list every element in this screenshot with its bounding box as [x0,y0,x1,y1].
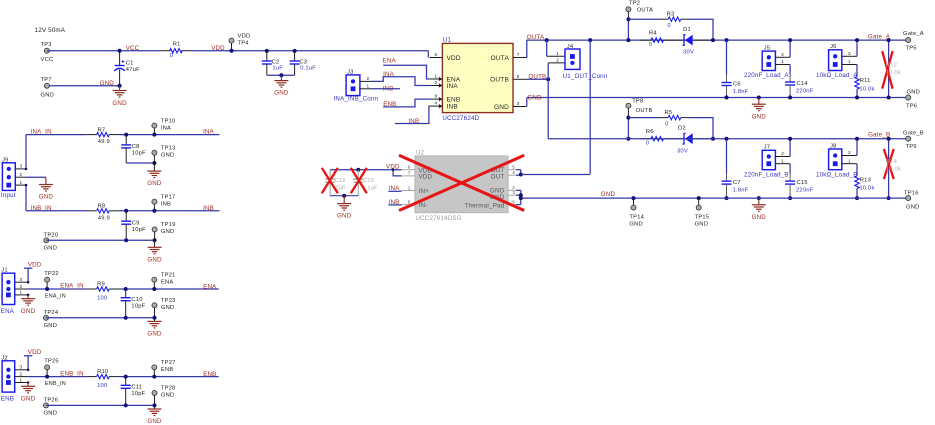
pin 8 ENB U1 [430,98,443,100]
pin 3 GND U2 [508,194,516,196]
svg-text:ENB: ENB [203,371,216,378]
svg-text:1.8nF: 1.8nF [733,89,749,95]
svg-text:2: 2 [781,151,784,156]
svg-text:UCC27624D: UCC27624D [442,115,479,122]
pin 9 Thermal_Pad U2 [508,204,516,206]
ground symbol GND rail A [757,96,761,100]
capacitor C10 [124,287,128,291]
svg-text:9: 9 [512,199,515,204]
svg-text:U1_OUT_Conn: U1_OUT_Conn [563,73,608,80]
svg-text:5: 5 [517,74,520,79]
svg-text:TP16: TP16 [904,190,919,196]
svg-text:C7: C7 [733,180,741,186]
svg-text:1uF: 1uF [272,66,283,72]
ground symbol J1 pin1 [27,294,30,297]
svg-text:2: 2 [781,52,784,57]
svg-text:3: 3 [517,101,520,106]
svg-text:TP26: TP26 [44,398,59,404]
svg-text:10.0k: 10.0k [859,86,874,92]
diode D1 zener 30V [683,35,686,46]
svg-text:3: 3 [512,190,515,195]
svg-text:U2: U2 [416,149,425,156]
svg-text:GND: GND [21,308,36,315]
node TP2 branch [626,17,630,21]
svg-text:ENA: ENA [1,308,15,315]
red X over U2 [399,155,524,210]
svg-text:10.0k: 10.0k [886,70,901,76]
testpoint TP5 [906,38,911,43]
svg-text:ENB: ENB [447,97,461,104]
svg-text:TP9: TP9 [906,144,917,150]
testpoint TP14 [632,196,636,200]
testpoint TP24 and bottom wire [44,315,49,320]
svg-text:GND: GND [161,393,174,399]
connector J1 [2,273,15,304]
svg-text:Input: Input [1,192,16,199]
svg-text:220nF_Load_A: 220nF_Load_A [744,72,789,79]
svg-text:10.0k: 10.0k [886,167,901,173]
svg-text:TP27: TP27 [161,360,176,366]
wire VCC rail [47,50,160,52]
pin 3 GND U1 [513,106,527,108]
svg-text:J5: J5 [764,45,771,51]
ground symbol GND rail B [757,196,761,200]
node GND junction [118,84,122,88]
svg-text:INB: INB [408,118,419,125]
svg-text:12V 50mA: 12V 50mA [35,27,66,34]
svg-text:GND: GND [527,95,542,102]
svg-text:R7: R7 [98,127,106,133]
svg-text:TP3: TP3 [41,42,52,48]
svg-text:TP19: TP19 [161,222,176,228]
svg-text:TP24: TP24 [44,310,59,316]
svg-text:GND: GND [44,323,57,329]
testpoint TP2 [627,12,629,19]
svg-text:TP28: TP28 [161,386,176,392]
svg-text:TP5: TP5 [906,45,917,51]
op-amp U2 UCC27614DSG DNP [415,156,508,213]
svg-text:220nF_Load_B: 220nF_Load_B [744,171,789,178]
svg-text:Gate_A: Gate_A [868,33,891,40]
svg-text:J9: J9 [2,157,9,163]
svg-text:0.1uF: 0.1uF [300,66,316,72]
svg-text:6: 6 [434,52,437,57]
wire C8 to TP13 gnd [126,162,154,164]
svg-text:GND: GND [39,194,54,201]
svg-text:100: 100 [97,383,107,389]
svg-text:GND: GND [752,113,767,120]
testpoint TP15 [697,196,701,200]
svg-text:C1: C1 [126,60,134,66]
svg-text:4: 4 [434,101,437,106]
node D1 R3 junction [711,38,715,42]
svg-text:7: 7 [408,171,411,176]
svg-text:J7: J7 [764,145,771,151]
testpoint TP8 [627,108,629,117]
svg-text:R5: R5 [665,110,673,116]
svg-text:100: 100 [97,295,107,301]
resistor R11 [856,65,858,77]
svg-text:0: 0 [646,141,649,147]
svg-text:UCC27614DSG: UCC27614DSG [416,215,462,222]
wire ENB_IN [28,376,87,378]
svg-text:10pF: 10pF [131,391,145,397]
testpoint TP3 [44,48,49,53]
svg-text:INA: INA [447,83,459,90]
svg-text:R14: R14 [886,159,898,165]
svg-text:5: 5 [512,165,515,170]
svg-text:TP22: TP22 [44,271,59,277]
svg-text:10.0k: 10.0k [859,186,874,192]
pin 2 INA U1 [430,85,443,87]
connector J9 Input [2,163,15,191]
svg-text:2: 2 [434,80,437,85]
net label GND rail B [521,197,906,199]
net label INB at U1 pin4 wire [395,106,430,123]
svg-text:1: 1 [20,377,23,382]
testpoint TP25 [45,365,50,370]
svg-text:VDD: VDD [238,33,251,39]
ground symbol below C2 C3 [280,75,282,80]
svg-text:TP2: TP2 [629,1,640,7]
svg-text:1: 1 [434,74,437,79]
svg-text:1: 1 [20,180,23,185]
svg-text:GND: GND [147,418,162,425]
svg-text:INA: INA [203,129,215,136]
capacitor C15 [789,164,791,174]
svg-text:VCC: VCC [126,45,140,52]
connector J7 220nF_Load_B [762,150,775,169]
capacitor C13 DNP [356,168,360,172]
svg-text:2: 2 [367,76,370,81]
svg-text:2: 2 [556,58,559,63]
svg-text:GND: GND [147,331,162,338]
wire U2 GND bracket [516,189,521,191]
svg-text:ENA_IN: ENA_IN [45,294,66,300]
svg-text:ENB_IN: ENB_IN [60,370,84,377]
svg-text:C15: C15 [797,180,808,186]
svg-text:0: 0 [170,53,173,59]
svg-text:8: 8 [434,94,437,99]
svg-text:0: 0 [665,121,668,127]
svg-text:C14: C14 [797,81,809,87]
pin 6 VDD U2 [402,169,415,171]
svg-text:R11: R11 [860,78,871,84]
svg-text:C9: C9 [132,221,140,227]
testpoint TP16 [906,196,911,201]
svg-text:10kΩ_Load_B: 10kΩ_Load_B [816,171,858,178]
svg-text:GND: GND [21,395,36,402]
svg-text:C3: C3 [299,59,307,65]
testpoint TP23 with ground [152,303,157,308]
testpoint TP7 [44,83,49,88]
capacitor C1 [119,51,121,66]
testpoint TP13 with ground [152,150,157,155]
svg-text:TP25: TP25 [44,359,59,365]
testpoint TP20 and bottom wire [44,238,49,243]
svg-text:R13: R13 [860,177,871,183]
svg-text:GND: GND [907,90,920,96]
svg-text:INA_INB_Conn: INA_INB_Conn [334,95,379,102]
svg-text:TP7: TP7 [41,77,52,83]
capacitor C11 [124,375,128,379]
svg-text:TP17: TP17 [161,194,176,200]
svg-text:GND: GND [44,411,57,417]
pin 8 IN- U2 [402,204,415,206]
connector J3 [346,75,360,96]
pin 1 ENA U1 [430,78,443,80]
svg-text:OUTB: OUTB [490,77,509,84]
resistor R8 [87,210,97,212]
svg-text:ENA: ENA [203,283,217,290]
resistor R7 [87,134,97,136]
svg-text:6: 6 [408,165,411,170]
wire J5 pin2 to rail [789,40,791,57]
resistor R12 DNP [888,40,890,97]
pin 1 IN+ U2 [402,190,415,192]
testpoint TP10 [153,128,155,135]
svg-text:49.9: 49.9 [98,139,110,145]
resistor R13 [856,164,858,176]
svg-text:R4: R4 [649,30,657,36]
svg-text:2: 2 [848,51,851,56]
svg-text:ENB: ENB [1,395,14,402]
wire C12 C13 commons [330,195,358,197]
svg-text:2: 2 [20,371,23,376]
wire ENA_IN [28,288,87,290]
pin 5 OUTB U1 [513,78,527,80]
testpoint TP19 with ground [152,227,157,232]
svg-text:TP8: TP8 [632,98,643,104]
svg-text:GND: GND [161,229,174,235]
pin 7 VDD U2 [402,175,415,177]
svg-text:Gate_A: Gate_A [903,31,924,37]
svg-text:2: 2 [20,284,23,289]
svg-text:TP20: TP20 [44,232,59,238]
svg-text:INB: INB [447,104,458,111]
svg-text:1: 1 [848,158,851,163]
svg-text:0: 0 [649,42,652,48]
svg-text:1: 1 [408,185,411,190]
testpoint TP22 [45,277,50,282]
connector J5 220nF_Load_A [762,51,775,70]
svg-text:VDD: VDD [419,174,433,181]
svg-text:C6: C6 [733,82,741,88]
svg-text:OUT: OUT [491,174,505,181]
node D2 R5 junction [711,137,715,141]
svg-text:D2: D2 [678,126,686,132]
capacitor C3 [293,49,297,53]
capacitor C14 [789,65,791,75]
testpoint TP26 and bottom wire [44,403,49,408]
capacitor C6 [725,38,729,42]
svg-text:J1: J1 [1,268,8,274]
svg-text:C13: C13 [363,178,374,184]
svg-text:GND: GND [161,305,174,311]
svg-text:GND: GND [695,221,708,227]
pin 4 OUT U2 [508,174,516,176]
svg-text:TP23: TP23 [161,298,176,304]
svg-text:30V: 30V [677,148,688,154]
svg-text:ENB: ENB [161,367,174,373]
svg-text:R8: R8 [98,204,106,210]
svg-text:INB: INB [203,205,214,212]
svg-text:10kΩ_Load_A: 10kΩ_Load_A [816,72,858,79]
svg-text:10pF: 10pF [132,151,146,157]
svg-text:10pF: 10pF [131,303,145,309]
testpoint TP6 [906,95,911,100]
svg-text:10pF: 10pF [132,227,146,233]
connector J4 U1_OUT_Conn [546,40,548,56]
testpoint TP9 [906,136,911,141]
svg-text:ENA_IN: ENA_IN [60,283,84,290]
connector J2 [2,361,15,392]
svg-text:GND: GND [337,213,352,220]
wire C2 C3 commons [267,74,295,76]
capacitor C9 [124,209,128,213]
resistor R14 DNP [888,139,890,198]
svg-text:2: 2 [848,150,851,155]
svg-text:U1: U1 [443,36,452,43]
ground symbol below C12 C13 [343,196,345,204]
node VCC [118,49,122,53]
svg-text:R1: R1 [173,41,181,47]
connector J6 10kOhm_Load_A [829,50,842,71]
resistor R3 bypass branch [628,18,660,20]
svg-text:TP4: TP4 [238,41,250,47]
svg-text:VCC: VCC [41,57,54,63]
svg-text:J8: J8 [830,143,837,149]
testpoint TP27 [153,370,155,377]
svg-text:GND: GND [41,92,54,98]
svg-text:7: 7 [517,52,520,57]
svg-text:GND: GND [752,214,767,221]
wire J9 pin3 to INA_IN [25,135,27,169]
wire GND from TP7 [47,85,120,87]
svg-text:3: 3 [20,365,23,370]
svg-text:1: 1 [781,59,784,64]
svg-text:GND: GND [494,104,509,111]
wire Gate_B rail [548,138,906,140]
svg-text:ENA: ENA [383,58,397,65]
wire J6 pin2 to rail [856,40,858,56]
svg-text:C11: C11 [131,385,142,391]
svg-text:J4: J4 [567,44,574,50]
svg-text:C8: C8 [132,144,140,150]
svg-text:D1: D1 [683,27,691,33]
svg-text:TP13: TP13 [161,145,176,151]
svg-text:VDD: VDD [28,349,42,356]
svg-text:IN-: IN- [419,202,428,209]
svg-text:OUTB: OUTB [636,108,653,114]
svg-text:J3: J3 [347,69,354,75]
svg-text:220nF: 220nF [796,188,814,194]
svg-text:1.8nF: 1.8nF [733,188,749,194]
svg-text:3: 3 [20,164,23,169]
svg-text:ENB_IN: ENB_IN [45,381,66,387]
svg-text:GND: GND [100,80,115,87]
pin 7 OUTA U1 [513,57,527,59]
svg-text:3: 3 [20,277,23,282]
svg-text:Gate_B: Gate_B [903,130,924,136]
svg-text:J2: J2 [1,355,8,361]
svg-text:GND: GND [274,90,289,97]
pin 6 VDD U1 [430,57,443,59]
svg-text:C12: C12 [335,178,346,184]
svg-text:VDD: VDD [447,55,461,62]
node TP8 branch [626,116,630,120]
svg-text:J6: J6 [830,44,837,50]
svg-text:TP21: TP21 [161,272,176,278]
svg-text:Thermal_Pad: Thermal_Pad [465,202,505,209]
resistor R6 [640,138,651,140]
svg-text:TP15: TP15 [695,214,710,220]
svg-text:IN+: IN+ [419,188,430,195]
wire J7 pin2 to rail [789,139,791,157]
svg-text:GND: GND [147,256,162,263]
ground symbol J2 pin1 [27,381,30,384]
wire U2 OUT bracket [516,169,521,171]
svg-text:GND: GND [112,100,127,107]
svg-text:GND: GND [147,180,162,187]
svg-text:1: 1 [556,51,559,56]
wire OUTB to Gate_B rail [547,63,549,139]
svg-text:1: 1 [848,59,851,64]
svg-text:220nF: 220nF [796,88,814,94]
capacitor C2 [265,49,269,53]
svg-text:TP10: TP10 [161,118,176,124]
net label GND and GND rail A [526,98,528,107]
svg-text:8: 8 [408,199,411,204]
svg-text:0: 0 [667,23,670,29]
svg-text:R9: R9 [97,282,105,288]
svg-text:OUTA: OUTA [491,55,510,62]
svg-text:TP6: TP6 [906,104,917,110]
op-amp U1 UCC27624D [442,43,513,112]
wire J8 pin2 to rail [856,139,858,156]
svg-text:R12: R12 [886,62,897,68]
svg-text:VDD: VDD [211,45,225,52]
svg-text:GND: GND [44,246,57,252]
svg-text:VDD: VDD [28,261,42,268]
svg-text:30V: 30V [683,50,694,56]
svg-text:1: 1 [781,158,784,163]
svg-text:C2: C2 [272,59,280,65]
testpoint TP4 [231,43,233,51]
ground symbol below C1 [119,86,121,91]
svg-text:GND: GND [906,204,919,210]
resistor R9 [87,288,97,290]
testpoint TP17 [153,204,155,211]
testpoint TP28 with ground [152,390,157,395]
svg-text:4: 4 [512,170,515,175]
capacitor C12 DNP [329,170,331,180]
svg-text:R10: R10 [97,369,108,375]
svg-text:INB: INB [161,201,171,207]
svg-text:OUTA: OUTA [637,7,653,13]
capacitor C8 [124,133,128,137]
svg-text:INA: INA [161,125,171,131]
resistor R10 [87,376,97,378]
svg-text:TP14: TP14 [629,214,644,220]
diode D2 zener 30V [683,133,686,144]
connector J8 10kOhm_Load_B [829,149,842,170]
resistor R4 [640,39,651,41]
svg-text:R3: R3 [667,12,675,18]
pin 4 INB U1 [430,105,443,107]
svg-text:GND: GND [601,191,616,198]
pin 5 OUT U2 [508,169,516,171]
